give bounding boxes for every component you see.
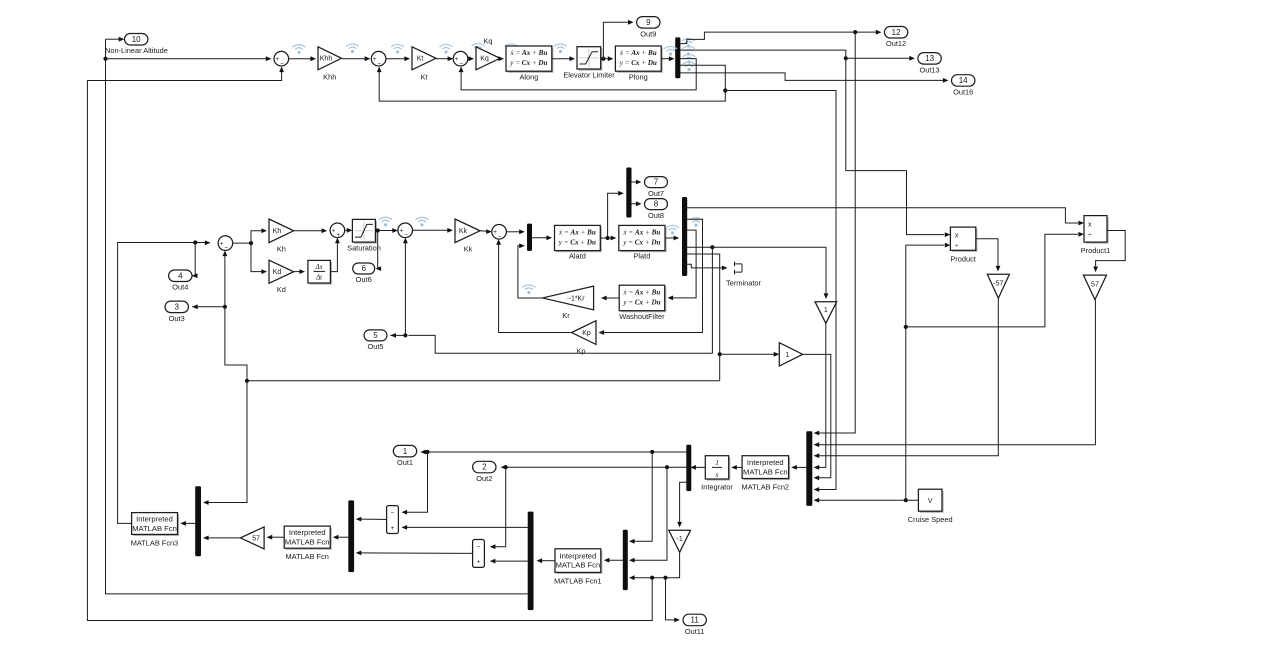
wire split to Kd [251, 243, 264, 272]
junction Kh/Kd split [249, 241, 253, 245]
function MATLAB Fcn [284, 526, 332, 550]
gain Kp [572, 321, 597, 356]
wire demuxD out2 to gain one-down [687, 247, 826, 296]
svg-text:Out7: Out7 [648, 189, 664, 198]
outport Out7 [645, 177, 668, 198]
svg-text:Alatd: Alatd [569, 252, 586, 261]
wire demuxP out4 (theta feedback to S2) [379, 65, 725, 101]
svg-text:Kh: Kh [273, 228, 282, 235]
svg-text:8: 8 [654, 200, 659, 209]
svg-text:+: + [399, 228, 403, 235]
outport Out11 [683, 614, 706, 636]
outport Out1 [393, 445, 416, 467]
svg-text:Khh: Khh [320, 56, 333, 63]
wire sum-H bottom feed [225, 254, 247, 381]
junction demuxD out2 branch [710, 245, 714, 249]
wire demuxW out2 to sum R2 plus [493, 560, 528, 562]
svg-text:Non-Linear Altitude: Non-Linear Altitude [105, 46, 168, 55]
svg-text:ẋ = Ax + Bu: ẋ = Ax + Bu [619, 49, 657, 57]
wire riser up [905, 327, 907, 500]
wire Cruise Speed to mux M1 in7 [817, 499, 919, 501]
wire MATLAB Fcn to gain 57L [270, 536, 285, 538]
outport Out3 [165, 301, 188, 323]
wifi badge 12 [690, 218, 703, 227]
wire derivative to sum K bottom [330, 241, 337, 272]
svg-text:57: 57 [252, 535, 260, 542]
sum S1 [274, 51, 289, 67]
svg-text:Integrator: Integrator [701, 482, 733, 491]
svg-text:3: 3 [174, 302, 179, 311]
wifi badge 3 [391, 45, 404, 54]
wire Kk to sum L [480, 230, 489, 233]
wire rail-A (-alt feedback) [87, 70, 652, 621]
junction Out11 branch [663, 576, 667, 580]
wire Along to Elevator Limiter [552, 58, 572, 60]
state-space Alatd [555, 225, 602, 252]
constant Cruise Speed [918, 489, 943, 513]
wire r-path to sum H feedback [247, 380, 720, 382]
wire Out13 branch to Product in1 [846, 58, 945, 234]
demux P (Plong states) [675, 37, 680, 78]
integrator Integrator [705, 456, 730, 481]
svg-text:Kq: Kq [483, 37, 492, 46]
svg-text:Saturation: Saturation [347, 243, 381, 252]
gain Khh [318, 47, 342, 82]
junction after Elevator Limiter [601, 57, 605, 61]
svg-text:Kk: Kk [459, 228, 468, 235]
wire Kp out to sum L bottom [499, 242, 572, 332]
wire mux F to MATLAB Fcn3 [183, 522, 195, 524]
gain one-right [779, 343, 802, 366]
svg-text:Out2: Out2 [476, 474, 492, 483]
svg-text:6: 6 [361, 264, 366, 273]
wifi badge 13 [523, 285, 536, 294]
product Product1 [1084, 216, 1109, 244]
wire Kr loop into mux E [518, 246, 543, 298]
svg-text:Out16: Out16 [953, 87, 973, 96]
wifi badge 7 [554, 44, 567, 53]
wire Elevator Limiter to Plong [601, 58, 611, 60]
svg-text:ẋ = Ax + Bu: ẋ = Ax + Bu [558, 229, 596, 237]
state-space Platd [619, 225, 667, 252]
junction Out1 line B [650, 450, 654, 454]
wifi badge 8 [379, 217, 392, 226]
wire mux M1 to MATLAB Fcn2 [794, 466, 806, 468]
sum K [330, 223, 345, 239]
svg-text:2: 2 [482, 463, 487, 472]
svg-text:Kp: Kp [582, 330, 591, 337]
svg-text:Interpreted: Interpreted [560, 551, 597, 560]
wire Kh to sum K [294, 230, 325, 232]
svg-text:−: − [477, 544, 481, 551]
wire sum R1 to mux G [359, 518, 387, 520]
gain Kq [476, 47, 500, 70]
wire Out12 branch down to mux M1 in1 [817, 32, 856, 433]
junction Out2 line B [665, 465, 669, 469]
svg-text:x: x [955, 232, 959, 239]
svg-text:+: + [391, 525, 395, 532]
wire down to mux M2 in2 [632, 467, 667, 560]
saturation Saturation [352, 219, 377, 243]
state-space WashoutFilter [619, 285, 666, 312]
function MATLAB Fcn2 [742, 456, 790, 480]
svg-text:Out3: Out3 [169, 314, 185, 323]
gain Kt [412, 47, 436, 82]
svg-text:1: 1 [715, 458, 719, 467]
wire S3 to gain Kq [468, 58, 471, 60]
sum H (height err) [218, 236, 233, 252]
wifi badge 6 [505, 44, 518, 53]
svg-text:MATLAB Fcn: MATLAB Fcn [285, 552, 328, 561]
wire mux E to Alatd [532, 237, 549, 239]
wire riser branch right [906, 234, 1078, 327]
junction Out4 branch [193, 240, 197, 244]
svg-text:+: + [275, 56, 279, 63]
wifi badge 1 [293, 45, 306, 54]
product Product [950, 227, 977, 252]
wire to outport 5 [390, 334, 405, 336]
wire demux78 to Out8 [631, 203, 638, 205]
svg-text:9: 9 [646, 18, 651, 27]
wire demuxW out1 to sum R1 plus [405, 526, 528, 528]
svg-text:Δt: Δt [315, 275, 323, 282]
junction Out3 branch [223, 305, 227, 309]
wire Kd to derivative [294, 271, 302, 273]
wire Khh to sum S2 [342, 58, 367, 60]
wire S2 to gain Kt [386, 58, 407, 60]
svg-text:Kr: Kr [562, 311, 570, 320]
svg-text:ẋ = Ax + Bu: ẋ = Ax + Bu [510, 49, 548, 57]
wire to outport 9 [603, 22, 630, 58]
wire demuxI out1 to Out1 [423, 451, 686, 453]
sum S2 [371, 51, 386, 67]
svg-text:y = Cx + Du: y = Cx + Du [622, 298, 660, 306]
wire up to sum S5 bottom [404, 241, 406, 336]
junction Out12 branch [853, 30, 857, 34]
svg-text:y = Cx + Du: y = Cx + Du [619, 59, 657, 67]
svg-text:+: + [373, 56, 377, 63]
wifi badge 2 [346, 44, 359, 53]
junction r-path branch [718, 352, 722, 356]
svg-text:Out4: Out4 [172, 283, 188, 292]
wire demuxD out1 long to Product1 in1 [687, 208, 1078, 223]
svg-text:Plong: Plong [629, 73, 648, 82]
function MATLAB Fcn3 [132, 513, 180, 536]
wire theta branch down to mux M1 in6 [725, 91, 836, 490]
wire demuxI out2 to Out2 [504, 466, 687, 468]
mux M1 (MATLAB Fcn2 inputs) [806, 431, 812, 506]
svg-text:13: 13 [925, 54, 934, 63]
svg-text:+: + [332, 228, 336, 235]
gain Kr [543, 286, 594, 320]
svg-text:MATLAB Fcn: MATLAB Fcn [743, 467, 788, 476]
svg-text:÷: ÷ [1088, 232, 1092, 239]
gain minus1 [669, 530, 691, 552]
svg-text:Product: Product [950, 255, 975, 264]
junction Out1 line A [425, 450, 429, 454]
gain 57-down [1083, 275, 1106, 300]
svg-text:1: 1 [403, 447, 408, 456]
svg-text:ẋ = Ax + Bu: ẋ = Ax + Bu [623, 229, 661, 237]
wire sum K to Saturation [345, 229, 350, 231]
wifi badge 5 [472, 44, 485, 53]
gain minus57 [987, 274, 1009, 298]
svg-text:Platd: Platd [633, 252, 650, 261]
wire Alatd to Platd [600, 237, 613, 239]
junction Alatd-out branch [606, 236, 610, 240]
svg-text:y = Cx + Du: y = Cx + Du [622, 239, 660, 247]
outport Out2 [473, 461, 496, 483]
wire Saturation to sum S5 [375, 230, 395, 232]
wire demuxD out5 down [687, 254, 720, 381]
wire branch to gain one-right [720, 353, 777, 355]
outport Out9 [637, 17, 660, 39]
svg-text:Product1: Product1 [1081, 246, 1111, 255]
wire sum R2 to mux G [359, 552, 473, 555]
svg-text:+: + [477, 559, 481, 566]
demux I (integrator states) [686, 445, 691, 491]
svg-text:−: − [280, 60, 284, 67]
junction Out13 branch [844, 56, 848, 60]
svg-text:Out9: Out9 [640, 29, 656, 38]
wire -1 out to mux M2 in3 [632, 552, 680, 577]
svg-text:ẋ = Ax + Bu: ẋ = Ax + Bu [623, 288, 661, 296]
svg-text:MATLAB Fcn2: MATLAB Fcn2 [742, 482, 790, 491]
mux F [195, 486, 201, 556]
mux M2 (MATLAB Fcn1 inputs) [623, 530, 628, 590]
svg-text:Kd: Kd [277, 285, 286, 294]
svg-text:Kp: Kp [576, 346, 585, 355]
terminator Terminator [726, 262, 761, 288]
wire one-down out to mux M1 in4 [817, 323, 826, 467]
wire demuxP out1 staircase to Out12 [680, 32, 878, 44]
derivative block [308, 260, 332, 284]
wire down to sum R1 minus [405, 452, 428, 512]
svg-text:5: 5 [373, 331, 378, 340]
wire to Out13 [846, 57, 912, 59]
svg-text:Kq: Kq [480, 56, 489, 63]
gain Kk [455, 219, 480, 253]
wire MATLAB Fcn2 to Integrator [734, 466, 742, 468]
wire Product1 out to gain 57 [1096, 231, 1126, 270]
wire mux M2 to MATLAB Fcn1 [607, 559, 623, 561]
wire demuxP out2 to Out13 [680, 50, 846, 58]
sum S5 [398, 223, 413, 239]
wifi badge demux-in [664, 47, 677, 56]
wifi badge stack 3 [683, 55, 696, 64]
mux E (lateral inputs) [527, 224, 532, 251]
svg-text:4: 4 [178, 271, 183, 280]
svg-text:Kt: Kt [421, 73, 428, 82]
wire Kq to Along [500, 58, 501, 60]
wire mux G to MATLAB Fcn [336, 536, 349, 538]
wire WashoutFilter to Kr [604, 297, 619, 299]
state-space Along [506, 46, 553, 73]
wire down to sum R2 minus [493, 467, 506, 547]
svg-text:Elevator Limiter: Elevator Limiter [563, 70, 615, 79]
svg-text:Interpreted: Interpreted [289, 528, 326, 537]
wire Plong to demux P [661, 58, 671, 60]
state-space Plong [615, 46, 662, 73]
wifi badge stack 1 [682, 39, 695, 48]
svg-text:−: − [404, 232, 408, 239]
wire to Out11 [666, 578, 677, 620]
svg-text:y = Cx + Du: y = Cx + Du [509, 59, 547, 67]
outport Out5 [364, 330, 387, 351]
svg-text:10: 10 [132, 35, 141, 44]
svg-text:MATLAB Fcn: MATLAB Fcn [285, 538, 330, 547]
junction Out2 line A [504, 465, 508, 469]
outport Out8 [645, 199, 668, 220]
outport Out4 [169, 270, 192, 292]
svg-text:MATLAB Fcn: MATLAB Fcn [556, 561, 601, 570]
outport Out10 [125, 34, 148, 46]
wire Platd to demux D [665, 237, 676, 239]
svg-text:Δx: Δx [315, 264, 324, 271]
gain Kd [269, 260, 294, 294]
svg-text:Out11: Out11 [685, 627, 705, 636]
svg-text:Kh: Kh [277, 244, 286, 253]
outport Out12 [884, 27, 907, 49]
sum R1 (rectangular) [387, 506, 399, 534]
wire down to mux M2 in1 [632, 452, 652, 541]
wire Integrator to demux I [693, 466, 705, 468]
svg-text:Kt: Kt [417, 56, 424, 63]
wire demuxD out2 to Kp [602, 219, 703, 332]
svg-text:Out6: Out6 [356, 275, 372, 284]
svg-text:Kk: Kk [464, 244, 473, 253]
demux E78 (Out7/Out8) [626, 168, 631, 218]
wire -57 to mux M1 in3 [817, 298, 999, 456]
svg-text:11: 11 [691, 616, 700, 625]
svg-text:Interpreted: Interpreted [747, 458, 784, 467]
wire branch down to Out5/sumS5 feedback [408, 247, 712, 353]
junction riser split [904, 325, 908, 329]
wire S1 to gain Khh [289, 58, 313, 60]
junction Out6 branch [376, 228, 380, 232]
svg-text:Along: Along [519, 73, 538, 82]
svg-text:-1: -1 [677, 536, 683, 543]
svg-text:14: 14 [959, 76, 968, 85]
svg-text:1: 1 [785, 352, 789, 359]
svg-text:V: V [928, 498, 933, 505]
svg-text:-1*Kr: -1*Kr [569, 295, 586, 302]
saturation Elevator Limiter [577, 47, 602, 71]
wire demuxP out3 (q feedback to S3) [461, 59, 696, 90]
junction sum-H feedback split [245, 379, 249, 383]
wire demuxD out3 to WashoutFilter [671, 230, 697, 298]
wire rail-B to sum S1 [106, 58, 269, 60]
function MATLAB Fcn1 [555, 549, 602, 574]
wire demuxD out6 to Terminator [687, 264, 725, 268]
wire Kt to sum S3 [436, 58, 450, 60]
wire Product out to gain -57 [976, 239, 998, 269]
svg-text:+: + [455, 56, 459, 63]
sum L [492, 225, 507, 241]
gain Kh [269, 219, 294, 253]
svg-text:MATLAB Fcn3: MATLAB Fcn3 [131, 538, 179, 547]
wire to outport 6 [377, 231, 379, 269]
svg-text:y = Cx + Du: y = Cx + Du [558, 239, 596, 247]
wifi badge stack 4 [683, 62, 696, 71]
wire demuxI out3 to gain -1 [680, 482, 687, 524]
junction rail-B to sum [103, 57, 107, 61]
junction rail-A source [650, 576, 654, 580]
svg-text:−: − [391, 510, 395, 517]
svg-text:WashoutFilter: WashoutFilter [619, 312, 665, 321]
junction theta branch [723, 88, 727, 92]
junction Out5 branch [403, 333, 407, 337]
svg-text:Kd: Kd [273, 269, 282, 276]
wire one-right out to mux M1 in5 [803, 354, 831, 477]
svg-text:Out1: Out1 [397, 458, 413, 467]
svg-text:12: 12 [892, 28, 901, 37]
svg-text:Interpreted: Interpreted [136, 515, 173, 524]
svg-text:-57: -57 [993, 281, 1003, 288]
gain 57-left [240, 527, 264, 549]
demux W (wing/longitudinal outputs) [528, 512, 534, 610]
svg-text:÷: ÷ [955, 243, 959, 250]
svg-text:Out5: Out5 [367, 342, 383, 351]
svg-text:Out13: Out13 [920, 65, 940, 74]
demux D (Platd states) [682, 197, 687, 276]
svg-text:57: 57 [1091, 282, 1099, 289]
wifi badge 4 [440, 45, 453, 54]
wire demuxP out5 to Out16 [680, 73, 946, 81]
svg-text:−: − [459, 60, 463, 67]
wifi badge 9 [416, 217, 429, 226]
wire rail-B vertical (altitude feedback up) [106, 39, 528, 594]
wire demux78 to Out7 [631, 181, 638, 183]
wifi badge stack 2 [682, 47, 695, 56]
junction Cruise Speed riser [904, 498, 908, 502]
svg-text:MATLAB Fcn1: MATLAB Fcn1 [554, 576, 602, 585]
wire to outport 10 [106, 38, 122, 40]
outport Out16 (port 14) [952, 75, 975, 97]
svg-text:Terminator: Terminator [726, 278, 761, 287]
wire branch up to demux E78 [608, 193, 621, 238]
svg-text:Out12: Out12 [886, 39, 906, 48]
svg-text:s: s [716, 470, 719, 479]
svg-text:1: 1 [824, 307, 828, 314]
wire MATLAB Fcn1 to demux W [540, 560, 556, 562]
wire 57 to mux M1 in2 [817, 300, 1096, 445]
wire 57L to mux F [206, 537, 240, 539]
wire sum L to mux E [506, 231, 521, 233]
gain one-down [815, 302, 837, 324]
wire to outport 4 [192, 243, 195, 276]
wire split to Kh [251, 231, 264, 243]
svg-text:Out8: Out8 [648, 211, 664, 220]
outport Out13 [918, 53, 941, 75]
svg-text:−: − [378, 60, 382, 67]
svg-text:MATLAB Fcn: MATLAB Fcn [132, 524, 177, 533]
sum S3 [453, 51, 468, 67]
wire riser to Product in2 [906, 245, 945, 327]
sum R2 (rectangular) [473, 540, 485, 568]
svg-text:7: 7 [654, 178, 659, 187]
wire sum S5 to Kk [413, 229, 450, 231]
svg-text:Cruise Speed: Cruise Speed [908, 515, 953, 524]
wire down to mux F in1 [206, 381, 247, 503]
wire rail-C (Fcn3 out up to sum H) [118, 243, 208, 524]
svg-text:Khh: Khh [323, 73, 336, 82]
svg-text:+: + [336, 232, 340, 239]
svg-text:+: + [493, 229, 497, 236]
wire sum-H out [233, 242, 251, 244]
wire to outport 3 [192, 306, 225, 308]
wifi badge 11 [666, 226, 679, 235]
